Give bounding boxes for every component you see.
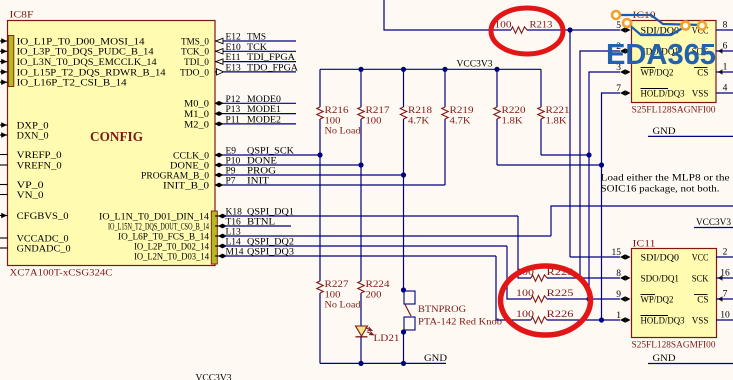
wire net MODE2 xyxy=(224,123,296,125)
wire QSPI data down to R226 xyxy=(496,256,531,320)
wire LED cathode to ground rail xyxy=(360,337,362,364)
svg-text:E13: E13 xyxy=(226,63,242,73)
selection bar over right QSPI pins xyxy=(211,211,217,264)
pin DXN_0 xyxy=(0,134,8,136)
svg-text:15: 15 xyxy=(612,248,622,258)
svg-text:IO_L15P_T2_DQS_RDWR_B_14: IO_L15P_T2_DQS_RDWR_B_14 xyxy=(17,68,166,78)
pin DONE_0 xyxy=(215,164,224,166)
svg-text:1.8K: 1.8K xyxy=(546,117,567,127)
svg-text:E10: E10 xyxy=(226,43,242,53)
svg-text:INIT_B_0: INIT_B_0 xyxy=(163,181,209,191)
svg-text:DXN_0: DXN_0 xyxy=(17,131,49,141)
svg-text:M0_0: M0_0 xyxy=(184,100,209,110)
pin VREFP_0 xyxy=(0,154,8,156)
wire net DONE xyxy=(224,164,361,166)
IC11 pin 10 VSS xyxy=(716,319,733,321)
svg-text:HOLD/DQ3: HOLD/DQ3 xyxy=(641,89,685,99)
svg-text:6: 6 xyxy=(723,42,728,52)
svg-text:4.7K: 4.7K xyxy=(408,117,429,127)
net label GND below IC10 xyxy=(648,135,733,137)
IC10 pin 1 CS xyxy=(716,71,733,73)
pin IO_L1P_T0_D00_MOSI_14 xyxy=(0,40,8,42)
svg-text:XC7A100T-xCSG324C: XC7A100T-xCSG324C xyxy=(10,269,113,279)
wire R226 to IC11 xyxy=(547,319,620,321)
pin CFGBVS_0 xyxy=(0,215,8,217)
svg-text:100: 100 xyxy=(366,117,382,127)
svg-text:1.8K: 1.8K xyxy=(502,117,523,127)
pushbutton BTNPROG (PTA-142) upper contact xyxy=(403,175,405,291)
svg-text:VCC3V3: VCC3V3 xyxy=(196,374,232,380)
watermark swoosh stroke 2 xyxy=(627,23,686,35)
wire net TMS xyxy=(224,40,296,42)
svg-text:DONE_0: DONE_0 xyxy=(170,161,209,171)
resistor R225 100 (series) xyxy=(531,296,547,302)
pin GNDADC_0 xyxy=(0,247,8,249)
pin IO_L15N_T2_DQS_DOUT_CSO_B_14 xyxy=(215,225,224,227)
svg-text:7: 7 xyxy=(723,290,728,300)
IC10 pin 2 SDO/DQ1 xyxy=(620,48,625,54)
pin IO_L2P_T0_D02_14 xyxy=(215,245,224,247)
junction LED column on ground rail xyxy=(358,361,363,366)
FPGA config-bank symbol IC8F body xyxy=(8,21,216,266)
svg-text:TCK_0: TCK_0 xyxy=(181,48,209,58)
svg-text:IO_L2N_T0_D03_14: IO_L2N_T0_D03_14 xyxy=(134,252,209,262)
pin TMS_0 xyxy=(215,40,224,42)
IC11 pin 16 SCK xyxy=(716,277,733,279)
svg-text:P10: P10 xyxy=(226,157,241,167)
resistor R213 100 (series on DQ0) xyxy=(511,27,527,33)
resistor R217 100 (pull-up on DONE) xyxy=(360,69,362,107)
pin VN_0 xyxy=(0,194,8,196)
svg-text:EDA365: EDA365 xyxy=(606,39,716,71)
svg-text:L13: L13 xyxy=(226,228,242,238)
svg-text:S25FL128SAGNFI00: S25FL128SAGNFI00 xyxy=(632,106,716,116)
svg-text:E11: E11 xyxy=(226,53,241,63)
junction on DONE at R217/R224 column xyxy=(358,162,363,167)
pin IO_L2N_T0_D03_14 xyxy=(215,255,224,257)
svg-text:VCCADC_0: VCCADC_0 xyxy=(17,234,69,244)
svg-text:E12: E12 xyxy=(226,33,242,43)
wire QSPI data down to R225 xyxy=(507,246,531,299)
svg-text:TMS_0: TMS_0 xyxy=(181,37,209,47)
svg-text:IO_L1N_T0_D01_DIN_14: IO_L1N_T0_D01_DIN_14 xyxy=(99,212,209,222)
IC10 pin 3 WP/DQ2 xyxy=(620,69,625,75)
resistor R219 4.7K (pull-up on INIT) xyxy=(444,69,446,107)
pin TDO_0 xyxy=(215,71,224,73)
svg-text:10: 10 xyxy=(720,311,730,321)
svg-text:TDO_0: TDO_0 xyxy=(180,68,209,78)
pin TDI_0 xyxy=(215,61,224,63)
svg-text:VN_0: VN_0 xyxy=(17,191,44,201)
svg-text:1: 1 xyxy=(616,311,621,321)
junction DQ1 on R223 output xyxy=(577,275,582,280)
IC11 pin 9 WP/DQ2 xyxy=(620,296,625,302)
svg-text:TMS: TMS xyxy=(247,33,266,43)
svg-text:TDO_FPGA: TDO_FPGA xyxy=(247,63,298,73)
wire net QSPI_DQ3 xyxy=(224,255,496,257)
pin PROGRAM_B_0 xyxy=(215,174,224,176)
svg-text:M2_0: M2_0 xyxy=(184,120,209,130)
resistor R223 100 (series) xyxy=(531,275,547,281)
svg-text:4: 4 xyxy=(723,84,728,94)
ground rail wire xyxy=(320,362,446,364)
svg-text:TDI_0: TDI_0 xyxy=(184,58,209,68)
svg-text:VCC3V3: VCC3V3 xyxy=(457,60,493,70)
svg-text:VSS: VSS xyxy=(692,89,709,99)
wire DQ1 vertical from IC10 pin 2 xyxy=(580,51,620,278)
orange marker dot D xyxy=(698,22,706,30)
svg-text:R224: R224 xyxy=(366,280,390,290)
orange marker dot B xyxy=(623,19,631,27)
resistor R218 4.7K (pull-up on PROG) xyxy=(403,69,405,107)
svg-text:No Load: No Load xyxy=(325,301,361,311)
svg-text:PROGRAM_B_0: PROGRAM_B_0 xyxy=(141,171,209,181)
wire net MODE1 xyxy=(224,113,296,115)
svg-text:No Load: No Load xyxy=(325,127,361,137)
orange marker dot A xyxy=(612,11,620,19)
svg-text:S25FL128SAGMFI00: S25FL128SAGMFI00 xyxy=(632,341,716,351)
svg-text:GND: GND xyxy=(653,127,676,137)
pin IO_L16P_T2_CSI_B_14 xyxy=(0,81,8,83)
svg-text:IO_L2P_T0_D02_14: IO_L2P_T0_D02_14 xyxy=(134,242,209,252)
pin IO_L6P_T0_FCS_B_14 xyxy=(215,235,224,237)
IC11 pin 15 SDI/DQ0 xyxy=(620,254,625,260)
resistor R220 1.8K (pull-up on DQ3) xyxy=(496,69,498,107)
svg-text:R227: R227 xyxy=(325,280,349,290)
svg-text:SDO/DQ1: SDO/DQ1 xyxy=(641,274,680,284)
wire net L13 up and off to the right xyxy=(551,206,733,236)
junction on VCC3V3 rail xyxy=(494,67,499,72)
svg-text:IC8F: IC8F xyxy=(10,11,34,21)
svg-text:200: 200 xyxy=(366,291,382,301)
svg-text:MODE1: MODE1 xyxy=(247,105,281,115)
wire R220 to DQ3 vertical xyxy=(497,164,602,166)
svg-text:5: 5 xyxy=(616,21,621,31)
wire net QSPI_DQ2 xyxy=(224,245,507,247)
wire DQ0 vertical to IC11 xyxy=(569,30,571,257)
svg-text:R213: R213 xyxy=(530,21,553,31)
svg-text:SDI/DQ0: SDI/DQ0 xyxy=(641,253,680,263)
svg-text:R221: R221 xyxy=(546,106,570,116)
resistor R227 100 No Load (pull-down on QSPI_SCK) xyxy=(319,155,321,281)
wire QSPI data down to R223 xyxy=(518,216,531,278)
svg-text:E9: E9 xyxy=(226,147,237,157)
wire net QSPI_DQ1 xyxy=(224,215,518,217)
IC11 pin 2 VCC xyxy=(716,256,733,258)
svg-text:100: 100 xyxy=(325,291,341,301)
svg-text:GND: GND xyxy=(424,354,447,364)
pushbutton BTNPROG lower contact xyxy=(404,317,415,330)
pin IO_L1N_T0_D01_DIN_14 xyxy=(215,215,224,217)
wire R213 to IC10 SI/DQ0 xyxy=(527,29,620,31)
pin VREFN_0 xyxy=(0,164,8,166)
wire DQ2 vertical from IC10 pin 3 xyxy=(589,72,620,299)
junction on VCC3V3 rail xyxy=(442,67,447,72)
svg-text:VSS: VSS xyxy=(692,316,709,326)
svg-text:LD21: LD21 xyxy=(374,334,400,344)
pin DXP_0 xyxy=(0,124,8,126)
svg-text:M1_0: M1_0 xyxy=(184,110,209,120)
pin VCCADC_0 xyxy=(0,237,8,239)
svg-text:Load either the MLP8 or the: Load either the MLP8 or the xyxy=(601,174,730,184)
svg-text:T16: T16 xyxy=(226,218,242,228)
pin INIT_B_0 xyxy=(215,184,224,186)
flash IC10 body xyxy=(632,21,717,103)
svg-text:MODE2: MODE2 xyxy=(247,115,281,125)
pin IO_L15P_T2_DQS_RDWR_B_14 xyxy=(0,71,8,73)
svg-text:PROG: PROG xyxy=(247,167,276,177)
pin IO_L3P_T0_DQS_PUDC_B_14 xyxy=(0,50,8,52)
pin TCK_0 xyxy=(215,50,224,52)
wire net MODE0 xyxy=(224,102,296,104)
watermark swoosh stroke 1 xyxy=(616,15,702,25)
svg-text:BTNL: BTNL xyxy=(247,218,275,228)
IC11 pin 7 CS xyxy=(716,298,733,300)
svg-text:IO_L16P_T2_CSI_B_14: IO_L16P_T2_CSI_B_14 xyxy=(17,79,127,89)
svg-text:CCLK_0: CCLK_0 xyxy=(173,151,209,161)
svg-text:DXP_0: DXP_0 xyxy=(17,121,49,131)
LED LD21 xyxy=(356,326,368,336)
svg-text:SCK: SCK xyxy=(692,274,709,284)
wire DQ3 vertical from IC10 pin 7 xyxy=(602,93,621,320)
svg-text:IC11: IC11 xyxy=(633,240,656,250)
wire net TDO_FPGA xyxy=(224,71,296,73)
junction R221 wire on DQ2 xyxy=(586,152,591,157)
svg-text:R217: R217 xyxy=(366,106,390,116)
wire R221 to DQ2 vertical xyxy=(541,154,589,156)
svg-text:SOIC16 package, not both.: SOIC16 package, not both. xyxy=(601,185,720,195)
wire DQ0 to IC11 pin 15 xyxy=(570,256,620,258)
svg-text:P12: P12 xyxy=(226,95,241,105)
svg-text:P7: P7 xyxy=(226,177,236,187)
junction on QSPI_SCK at R216/R227 column xyxy=(317,152,322,157)
svg-text:TDI_FPGA: TDI_FPGA xyxy=(247,53,295,63)
svg-text:HOLD/DQ3: HOLD/DQ3 xyxy=(641,316,685,326)
svg-text:VP_0: VP_0 xyxy=(17,181,44,191)
svg-text:K18: K18 xyxy=(226,208,243,218)
svg-text:2: 2 xyxy=(723,248,728,258)
svg-text:P9: P9 xyxy=(226,167,236,177)
wire net BTNL xyxy=(224,225,291,227)
svg-text:IO_L1P_T0_D00_MOSI_14: IO_L1P_T0_D00_MOSI_14 xyxy=(17,37,145,47)
power net label VCC3V3 near IC11 xyxy=(694,227,733,229)
svg-text:INIT: INIT xyxy=(247,177,269,187)
wire net QSPI_SCK xyxy=(224,154,320,156)
svg-text:R216: R216 xyxy=(325,106,349,116)
svg-text:4.7K: 4.7K xyxy=(450,117,471,127)
svg-text:8: 8 xyxy=(616,269,621,279)
svg-text:IO_L15N_T2_DQS_DOUT_CSO_B_14: IO_L15N_T2_DQS_DOUT_CSO_B_14 xyxy=(108,222,209,232)
svg-text:CONFIG: CONFIG xyxy=(90,130,143,145)
svg-text:VREFP_0: VREFP_0 xyxy=(17,151,62,161)
svg-text:100: 100 xyxy=(495,21,512,31)
svg-text:R218: R218 xyxy=(408,106,432,116)
IC11 pin 1 HOLD/DQ3 xyxy=(620,317,625,323)
svg-text:8: 8 xyxy=(723,21,728,31)
pushbutton actuator xyxy=(405,305,411,317)
pin M1_0 xyxy=(215,113,224,115)
IC10 pin 4 VSS xyxy=(716,92,733,94)
junction on VCC3V3 rail xyxy=(358,67,363,72)
svg-text:VCC: VCC xyxy=(692,253,709,263)
pin VP_0 xyxy=(0,184,8,186)
svg-text:7: 7 xyxy=(616,84,621,94)
IC10 pin 6 SCK xyxy=(716,50,733,52)
svg-text:R219: R219 xyxy=(450,106,474,116)
svg-text:QSPI_DQ2: QSPI_DQ2 xyxy=(247,238,294,248)
svg-text:L14: L14 xyxy=(226,238,242,248)
svg-text:R225: R225 xyxy=(547,289,574,299)
selection bar over left pins xyxy=(8,36,14,87)
resistor R216 100 No Load (pull-up on QSPI_SCK) xyxy=(319,69,321,107)
svg-text:TCK: TCK xyxy=(247,43,267,53)
pin M0_0 xyxy=(215,102,224,104)
junction on VCC3V3 rail xyxy=(401,67,406,72)
IC10 pin 8 VCC xyxy=(716,29,733,31)
svg-text:BTNPROG: BTNPROG xyxy=(418,305,466,315)
wire R225 to IC11 xyxy=(547,298,620,300)
svg-text:IO_L6P_T0_FCS_B_14: IO_L6P_T0_FCS_B_14 xyxy=(118,232,209,242)
orange marker dot C xyxy=(682,22,690,30)
wire net on pin L13 xyxy=(224,235,551,237)
junction DQ0 branch xyxy=(567,27,572,32)
svg-text:QSPI_DQ3: QSPI_DQ3 xyxy=(247,248,294,258)
junction button column on ground rail xyxy=(401,361,406,366)
svg-text:R226: R226 xyxy=(547,310,574,320)
flash IC11 body xyxy=(632,249,717,338)
svg-text:VCC3V3: VCC3V3 xyxy=(696,218,731,228)
junction DQ2 on R225 output xyxy=(586,296,591,301)
svg-text:DONE: DONE xyxy=(247,157,277,167)
svg-text:IO_L3P_T0_DQS_PUDC_B_14: IO_L3P_T0_DQS_PUDC_B_14 xyxy=(17,48,154,58)
svg-text:GNDADC_0: GNDADC_0 xyxy=(17,244,71,254)
svg-text:P11: P11 xyxy=(226,115,241,125)
svg-text:P13: P13 xyxy=(226,105,241,115)
IC10 pin 5 SDI/DQ0 xyxy=(620,27,625,33)
resistor R221 1.8K (pull-up on DQ2) xyxy=(540,69,542,107)
svg-text:GND: GND xyxy=(653,354,676,364)
svg-text:M14: M14 xyxy=(226,248,244,258)
svg-text:100: 100 xyxy=(325,117,341,127)
red highlight ellipse around R223 R225 R226 xyxy=(501,266,591,335)
resistor R226 100 (series) xyxy=(531,317,547,323)
pin M2_0 xyxy=(215,123,224,125)
IC11 pin 8 SDO/DQ1 xyxy=(620,275,625,281)
wire R223 to IC11 xyxy=(547,277,620,279)
resistor R224 200 (DONE LED series) xyxy=(360,165,362,281)
wire net TDI_FPGA xyxy=(224,61,296,63)
pin IO_L3N_T0_DQS_EMCCLK_14 xyxy=(0,61,8,63)
svg-text:VREFN_0: VREFN_0 xyxy=(17,161,62,171)
junction R220 wire on DQ3 xyxy=(599,162,604,167)
svg-text:100: 100 xyxy=(516,289,534,299)
svg-text:QSPI_DQ1: QSPI_DQ1 xyxy=(247,208,294,218)
svg-text:PTA-142 Red Knob: PTA-142 Red Knob xyxy=(418,318,502,328)
svg-text:IO_L3N_T0_DQS_EMCCLK_14: IO_L3N_T0_DQS_EMCCLK_14 xyxy=(17,58,157,68)
red highlight ellipse around R213 xyxy=(491,8,563,54)
net label GND below IC11 xyxy=(648,363,733,365)
wire net TCK xyxy=(224,50,296,52)
wire net PROG xyxy=(224,174,404,176)
junction on PROG at R218/button column xyxy=(401,172,406,177)
svg-text:MODE0: MODE0 xyxy=(247,95,281,105)
svg-text:9: 9 xyxy=(616,290,621,300)
pin CCLK_0 xyxy=(215,154,224,156)
wire from MOSI net entering at top xyxy=(384,0,511,30)
svg-text:1: 1 xyxy=(723,63,728,73)
junction DQ3 on R226 output xyxy=(599,317,604,322)
wire button to ground rail xyxy=(403,330,405,363)
svg-text:QSPI_SCK: QSPI_SCK xyxy=(247,147,294,157)
wire VCC3V3 rail xyxy=(320,68,541,70)
svg-text:CFGBVS_0: CFGBVS_0 xyxy=(17,212,69,222)
svg-text:100: 100 xyxy=(516,310,534,320)
svg-text:WP/DQ2: WP/DQ2 xyxy=(641,295,674,305)
IC10 pin 7 HOLD/DQ3 xyxy=(620,90,625,96)
svg-text:CS: CS xyxy=(697,295,708,305)
wire net INIT xyxy=(224,184,445,186)
svg-text:R220: R220 xyxy=(502,106,526,116)
